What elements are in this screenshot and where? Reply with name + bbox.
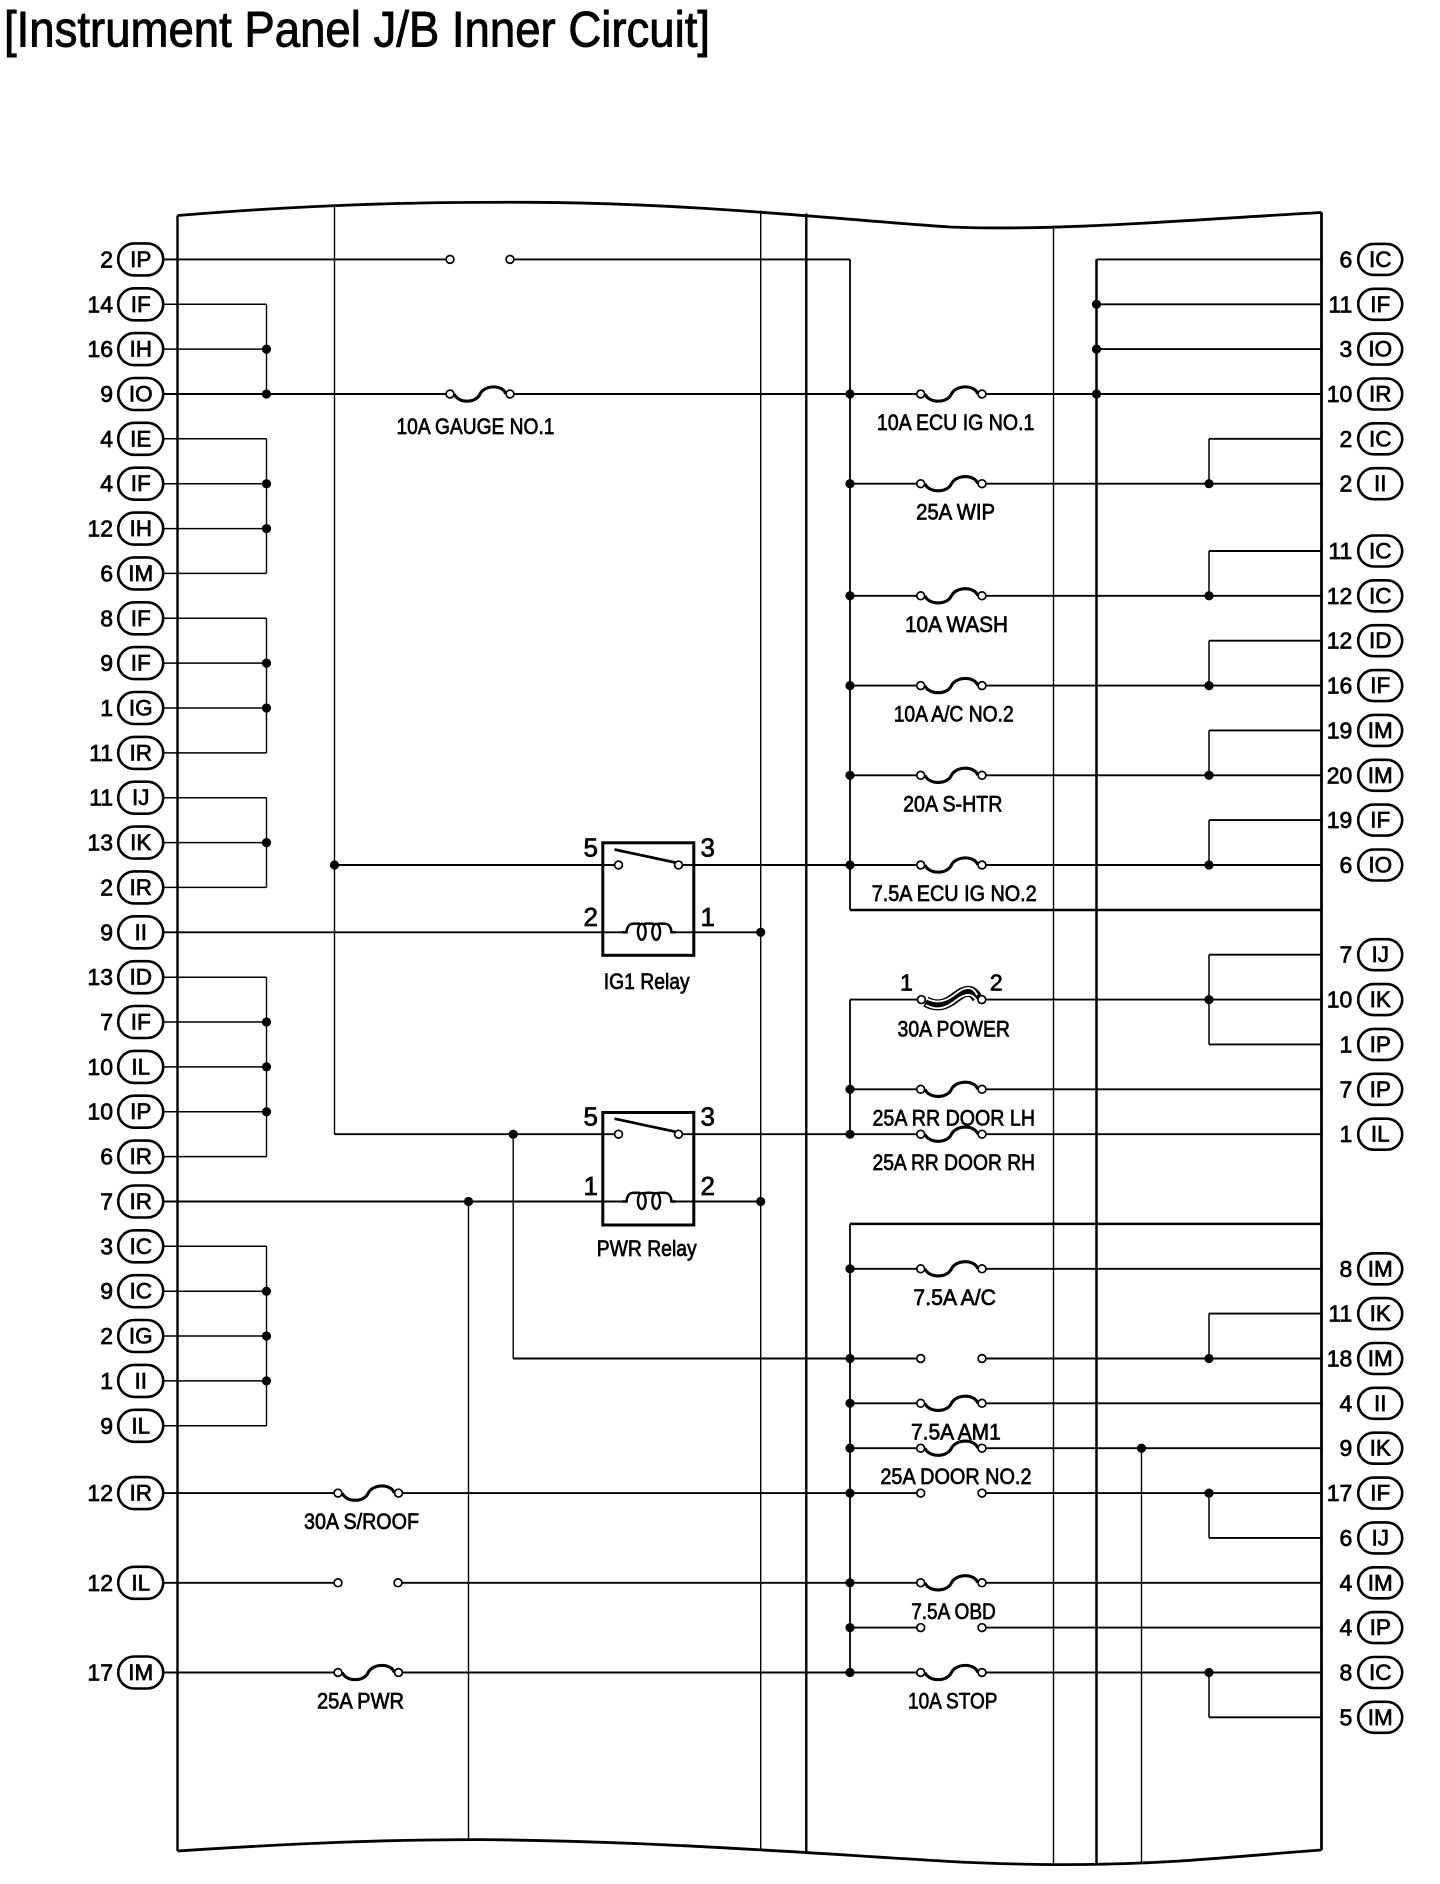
wire stub left pin row 24 [163, 1335, 266, 1337]
J/B left edge [176, 216, 178, 1852]
svg-text:30A S/ROOF: 30A S/ROOF [304, 1509, 419, 1534]
wire 7 IR row to PWR coil [163, 1201, 623, 1203]
junction dot x513/PWR feed [509, 1130, 518, 1139]
connector pin 1 IG (left) [100, 692, 163, 724]
connector pin 5 IM (right) [1340, 1702, 1403, 1733]
junction dot rail850 row 5 [845, 479, 854, 488]
wire 4 IP spare row [850, 1627, 1322, 1629]
svg-text:7: 7 [100, 1009, 113, 1035]
connector pin 10 IK (right) [1327, 984, 1402, 1015]
junction dot V5 row1 [1092, 300, 1101, 309]
svg-text:IF: IF [131, 606, 151, 631]
wire 12 IC / 10A WASH row [850, 595, 1322, 597]
svg-text:9: 9 [100, 1278, 113, 1304]
right stub vertical rows 27.5-28.5 [1208, 1493, 1210, 1538]
svg-text:IP: IP [1370, 1032, 1391, 1057]
connector pin 6 IO (right) [1340, 850, 1403, 881]
connector pin 19 IF (right) [1327, 805, 1402, 836]
svg-text:IK: IK [1370, 987, 1391, 1012]
svg-text:IG1 Relay: IG1 Relay [604, 969, 691, 994]
svg-text:7: 7 [100, 1189, 113, 1215]
junction dot rail850 row 3 [845, 389, 854, 398]
svg-text:IF: IF [1370, 1481, 1390, 1506]
wire 11 IF row [1097, 303, 1322, 305]
svg-text:5: 5 [584, 833, 598, 863]
wire 2 IP row [163, 258, 850, 260]
svg-text:12: 12 [1327, 583, 1353, 609]
svg-text:IF: IF [1370, 292, 1390, 317]
wire stub left pin row 13 [163, 842, 266, 844]
supply rail x850 POWER segment [849, 1000, 851, 1135]
svg-text:10A ECU IG NO.1: 10A ECU IG NO.1 [877, 410, 1035, 435]
svg-text:7.5A OBD: 7.5A OBD [911, 1599, 996, 1624]
svg-text:II: II [1374, 471, 1387, 496]
vertical bus V1 x334 [334, 205, 336, 1135]
svg-text:10A STOP: 10A STOP [908, 1689, 997, 1714]
junction dot rail850 row 29.5 [845, 1578, 854, 1587]
svg-text:10: 10 [87, 1099, 113, 1125]
wire 20 IM / 20A S-HTR row [850, 774, 1322, 776]
junction dot rail850 row 27.5 [845, 1489, 854, 1498]
junction dot (266.5,1291.2) [262, 1287, 271, 1296]
svg-text:2: 2 [1340, 471, 1353, 497]
fuse 7.5A OBD [911, 1576, 996, 1624]
svg-text:10: 10 [87, 1054, 113, 1080]
left group bus x266 rows 1-3 [266, 304, 268, 394]
svg-text:4: 4 [1340, 1570, 1353, 1596]
wire 9 IK / 25A DOOR NO.2 row [850, 1447, 1322, 1449]
svg-text:17: 17 [87, 1660, 113, 1686]
svg-text:IK: IK [1370, 1301, 1391, 1326]
svg-text:II: II [134, 920, 147, 945]
svg-text:8: 8 [1340, 1660, 1353, 1686]
connector pin 4 IF (left) [100, 468, 163, 500]
supply rail x850 upper segment [849, 259, 851, 910]
svg-text:6: 6 [1340, 1525, 1353, 1551]
svg-text:20: 20 [1327, 762, 1353, 788]
connector pin 10 IR (right) [1327, 379, 1402, 410]
wire stub left pin row 11 [163, 752, 266, 754]
wire stub left pin row 25 [163, 1380, 266, 1382]
svg-text:IC: IC [129, 1279, 152, 1304]
junction dot rail850 row 26.5 [845, 1444, 854, 1453]
junction dot V5 row2 [1092, 345, 1101, 354]
svg-text:2: 2 [100, 874, 113, 900]
fuse 30A S/ROOF [304, 1486, 419, 1534]
junction dot V5 row3 [1092, 389, 1101, 398]
junction dot (266.5,349.1) [262, 345, 271, 354]
junction dot (266.5,1066.9) [262, 1062, 271, 1071]
junction dot rail850 row 11.5 [845, 771, 854, 780]
connector pin 6 IR (left) [100, 1141, 163, 1173]
connector pin 2 IP (left) [100, 243, 163, 275]
svg-text:7: 7 [1340, 1076, 1353, 1102]
svg-text:ID: ID [1369, 628, 1392, 653]
title text [4, 2, 710, 58]
connector pin 6 IM (left) [100, 557, 163, 589]
junction dot rail850 row 22.5 [845, 1264, 854, 1273]
wire stub left pin row 16 [163, 976, 266, 978]
wire 10 IK / 30A POWER row [850, 999, 1322, 1001]
right stub vertical rows 4-5 [1208, 439, 1210, 484]
junction dot (266.5,394.0) [262, 389, 271, 398]
junction dot stub1209 row 11.5 [1204, 771, 1213, 780]
svg-text:13: 13 [87, 964, 113, 990]
junction dot rail850 row 30.5 [845, 1623, 854, 1632]
wire 11 IK stub row [1209, 1313, 1322, 1315]
connector pin 11 IJ (left) [89, 782, 163, 814]
svg-text:1: 1 [584, 1171, 598, 1201]
svg-text:IO: IO [129, 382, 153, 407]
wire 9 IO / 10 IR main row [163, 393, 1321, 395]
svg-text:IE: IE [130, 426, 151, 451]
svg-text:ID: ID [129, 965, 152, 990]
svg-text:IH: IH [129, 337, 152, 362]
fuse 7.5A ECU IG NO.2 [872, 858, 1037, 906]
junction dot (266.5,483.7) [262, 479, 271, 488]
svg-text:IG: IG [129, 1324, 153, 1349]
svg-text:IK: IK [130, 830, 151, 855]
wire 5 IM stub row [1209, 1716, 1322, 1718]
wire stub left pin row 18 [163, 1066, 266, 1068]
wire 12 IR / 17 IF row [163, 1492, 1321, 1494]
connector pin 3 IO (right) [1340, 334, 1403, 365]
svg-text:IG: IG [129, 696, 153, 721]
junction dot rail850 row 9.5 [845, 681, 854, 690]
left group bus x266 rows 22-26 [266, 1246, 268, 1426]
svg-text:25A WIP: 25A WIP [916, 500, 995, 525]
right stub vertical rows 8.5-9.5 [1208, 641, 1210, 686]
fuse 25A RR DOOR RH [873, 1127, 1036, 1175]
svg-text:5: 5 [584, 1102, 598, 1132]
svg-text:9: 9 [1340, 1435, 1353, 1461]
spare fuse slot 2 IP row [446, 256, 514, 264]
wire stub left pin row 8 [163, 617, 266, 619]
connector pin 16 IH (left) [87, 333, 163, 365]
svg-text:1: 1 [1340, 1031, 1353, 1057]
wire 12 ID stub row [1209, 640, 1322, 642]
svg-text:25A PWR: 25A PWR [317, 1689, 404, 1714]
left group bus x266 rows 16-20 [266, 977, 268, 1156]
wire stub left pin row 3 [163, 393, 266, 395]
junction dot stub1209 row 5 [1204, 479, 1213, 488]
svg-text:30A POWER: 30A POWER [898, 1017, 1011, 1042]
svg-text:IL: IL [1371, 1122, 1390, 1147]
fuse 25A DOOR NO.2 [880, 1441, 1031, 1489]
svg-text:2: 2 [584, 902, 598, 932]
svg-text:11: 11 [1328, 538, 1352, 564]
vertical bus V3 x806 [805, 214, 807, 1853]
connector pin 17 IF (right) [1327, 1478, 1402, 1509]
junction dot stub1209 row 27.5 [1204, 1489, 1213, 1498]
svg-text:10A A/C NO.2: 10A A/C NO.2 [894, 702, 1014, 727]
fuse 10A STOP [908, 1665, 997, 1713]
connector pin 9 IL (left) [100, 1410, 163, 1442]
svg-text:IM: IM [128, 1660, 153, 1685]
svg-text:7: 7 [1340, 942, 1353, 968]
connector pin 12 IL (left) [87, 1567, 163, 1599]
left group bus x266 rows 12-14 [266, 798, 268, 888]
svg-text:6: 6 [100, 560, 113, 586]
fuse 10A ECU IG NO.1 [877, 387, 1035, 435]
right stub vertical rows 12.5-13.5 [1208, 820, 1210, 865]
svg-text:2: 2 [990, 970, 1003, 996]
svg-text:3: 3 [1340, 336, 1353, 362]
svg-text:3: 3 [701, 833, 715, 863]
junction dot (266.5,1022.0) [262, 1017, 271, 1026]
svg-text:18: 18 [1327, 1346, 1353, 1372]
wire 2 II / 25A WIP row [850, 483, 1322, 485]
junction dot stub1209 row 24.5 [1204, 1354, 1213, 1363]
connector pin 11 IF (right) [1328, 289, 1402, 320]
wire 7 IP / 25A RR DOOR LH row [850, 1088, 1322, 1090]
wire stub left pin row 19 [163, 1111, 266, 1113]
wire PWR coil out to V2 [675, 1201, 761, 1203]
junction dot stub1209 row 13.5 [1204, 860, 1213, 869]
svg-text:9: 9 [100, 650, 113, 676]
svg-text:IP: IP [1370, 1615, 1391, 1640]
junction dot x1141/DOOR NO.2 [1137, 1444, 1146, 1453]
connector pin 17 IM (left) [87, 1657, 163, 1689]
vertical wire x468 from 7 IR row [468, 1202, 470, 1839]
connector pin 7 IP (right) [1340, 1074, 1403, 1105]
vertical wire x1141 from DOOR NO.2 row [1141, 1448, 1143, 1864]
svg-text:7.5A AM1: 7.5A AM1 [911, 1419, 1001, 1444]
wire 8 IM / 7.5A A/C row [850, 1268, 1322, 1270]
svg-text:13: 13 [87, 830, 113, 856]
right stub vertical rows 31.5-32.5 [1208, 1673, 1210, 1718]
svg-text:19: 19 [1327, 807, 1353, 833]
wire IG1 coil out to V2 [675, 931, 761, 933]
wire 3 IO row [1097, 348, 1322, 350]
right stub vertical rows 23.5-24.5 [1208, 1314, 1210, 1359]
wire 7 IJ stub row [1209, 954, 1322, 956]
vertical bus V2 x761 (relay coil return) [760, 211, 762, 1849]
svg-text:10A WASH: 10A WASH [905, 612, 1008, 637]
svg-text:25A RR DOOR RH: 25A RR DOOR RH [873, 1150, 1036, 1175]
connector pin 9 IC (left) [100, 1275, 163, 1307]
wire stub left pin row 17 [163, 1021, 266, 1023]
svg-text:IM: IM [1368, 1705, 1393, 1730]
svg-text:20A S-HTR: 20A S-HTR [903, 791, 1002, 816]
connector pin 11 IK (right) [1328, 1298, 1402, 1329]
connector pin 8 IM (right) [1340, 1253, 1403, 1284]
svg-text:1: 1 [100, 695, 113, 721]
connector pin 9 IO (left) [100, 378, 163, 410]
junction dot V2/IG1 coil [756, 928, 765, 937]
connector pin 11 IC (right) [1328, 536, 1402, 567]
connector pin 16 IF (right) [1327, 670, 1402, 701]
svg-text:IJ: IJ [1371, 942, 1389, 967]
fuse 25A WIP [916, 477, 995, 525]
svg-text:12: 12 [87, 1480, 113, 1506]
connector pin 10 IP (left) [87, 1096, 163, 1128]
svg-text:IM: IM [1368, 1256, 1393, 1281]
connector pin 13 ID (left) [87, 961, 163, 993]
svg-text:IR: IR [129, 1481, 152, 1506]
svg-text:IJ: IJ [132, 785, 150, 810]
connector pin 9 IF (left) [100, 647, 163, 679]
svg-text:IR: IR [1369, 382, 1392, 407]
junction dot V2/PWR coil [756, 1197, 765, 1206]
svg-text:II: II [134, 1368, 147, 1393]
fuse 10A GAUGE NO.1 [397, 387, 555, 439]
junction dot rail850 RR DOOR LH [845, 1085, 854, 1094]
connector pin 18 IM (right) [1327, 1343, 1402, 1374]
svg-text:II: II [1374, 1391, 1387, 1416]
wire stub left pin row 23 [163, 1290, 266, 1292]
svg-text:12: 12 [87, 516, 113, 542]
svg-text:IJ: IJ [1371, 1525, 1389, 1550]
connector pin 12 IR (left) [87, 1477, 163, 1509]
bus rail y1224 to right edge [850, 1223, 1322, 1226]
svg-text:3: 3 [100, 1233, 113, 1259]
fuse 20A S-HTR [903, 768, 1002, 816]
connector pin 20 IM (right) [1327, 760, 1402, 791]
vertical wire x513 PWR feed branch [512, 1134, 514, 1358]
junction dot x468/7 IR [464, 1197, 473, 1206]
wire stub left pin row 14 [163, 886, 266, 888]
wire 19 IF stub row [1209, 819, 1322, 821]
connector pin 3 IC (left) [100, 1230, 163, 1262]
svg-text:11: 11 [1328, 291, 1352, 317]
svg-text:3: 3 [701, 1102, 715, 1132]
wire 11 IC stub row [1209, 550, 1322, 552]
svg-text:9: 9 [100, 919, 113, 945]
svg-text:2: 2 [100, 1323, 113, 1349]
connector pin 1 IL (right) [1340, 1119, 1403, 1150]
svg-text:19: 19 [1327, 717, 1353, 743]
svg-text:25A DOOR NO.2: 25A DOOR NO.2 [880, 1464, 1031, 1489]
svg-text:10A GAUGE NO.1: 10A GAUGE NO.1 [397, 414, 555, 439]
svg-text:PWR Relay: PWR Relay [597, 1236, 698, 1261]
wire stub left pin row 26 [163, 1425, 266, 1427]
svg-text:IF: IF [1370, 673, 1390, 698]
J/B bottom wavy border [178, 1840, 1322, 1865]
connector pin 6 IJ (right) [1340, 1522, 1403, 1553]
connector pin 7 IJ (right) [1340, 939, 1403, 970]
connector pin 12 IH (left) [87, 513, 163, 545]
bus rail y910 to right edge [850, 909, 1322, 912]
connector pin 2 IG (left) [100, 1320, 163, 1352]
svg-text:17: 17 [1327, 1480, 1353, 1506]
connector pin 11 IR (left) [89, 737, 163, 769]
junction dot stub1209 row 16.5 [1204, 995, 1213, 1004]
junction dot rail850 row 24.5 [845, 1354, 854, 1363]
connector pin 12 IC (right) [1327, 580, 1402, 611]
svg-text:16: 16 [87, 336, 113, 362]
wire 19 IM stub row [1209, 729, 1322, 731]
svg-text:2: 2 [100, 246, 113, 272]
fuse 10A A/C NO.2 [894, 678, 1014, 726]
svg-text:10: 10 [1327, 987, 1353, 1013]
fuse 25A RR DOOR LH [873, 1082, 1036, 1130]
right stub vertical rows 10.5-11.5 [1208, 730, 1210, 775]
spare fuse slot 4 IP row [917, 1624, 986, 1632]
junction dot rail850 row 7.5 [845, 591, 854, 600]
svg-text:14: 14 [87, 291, 113, 317]
svg-text:IC: IC [1369, 247, 1392, 272]
wire 12 IL / 4 IM row [163, 1582, 1321, 1584]
right stub vertical rows 15.5-17.5 [1208, 955, 1210, 1045]
connector pin 4 II (right) [1340, 1388, 1403, 1419]
svg-text:IF: IF [1370, 808, 1390, 833]
connector pin 4 IP (right) [1340, 1612, 1403, 1643]
spare fuse slot 12 IL row [334, 1579, 402, 1587]
svg-text:12: 12 [87, 1570, 113, 1596]
connector pin 4 IM (right) [1340, 1567, 1403, 1598]
svg-text:25A RR DOOR LH: 25A RR DOOR LH [873, 1105, 1036, 1130]
relay U2 PWR Relay [584, 1102, 715, 1261]
svg-text:IF: IF [131, 292, 151, 317]
svg-text:2: 2 [701, 1171, 715, 1201]
junction dot (266.5,1111.7) [262, 1107, 271, 1116]
connector pin 12 ID (right) [1327, 625, 1402, 656]
wire stub left pin row 1 [163, 303, 266, 305]
junction dot (266.5,708.0) [262, 703, 271, 712]
connector pin 6 IC (right) [1340, 244, 1403, 275]
wire PWR relay feed / RR DOOR RH / 1 IL row [335, 1133, 1322, 1135]
wire stub left pin row 6 [163, 528, 266, 530]
svg-text:IP: IP [1370, 1077, 1391, 1102]
svg-text:1: 1 [100, 1368, 113, 1394]
svg-text:11: 11 [1328, 1301, 1352, 1327]
vertical bus V5 x1096 [1095, 259, 1098, 1864]
fuse 7.5A AM1 [911, 1396, 1001, 1444]
svg-text:IC: IC [129, 1234, 152, 1259]
vertical bus V4 x1053 [1053, 226, 1055, 1865]
junction dot (266.5,528.6) [262, 524, 271, 533]
connector pin 4 IE (left) [100, 423, 163, 455]
connector pin 2 IC (right) [1340, 423, 1403, 454]
wire 1 IP stub row [1209, 1043, 1322, 1045]
svg-text:6: 6 [1340, 246, 1353, 272]
svg-text:IC: IC [1369, 1660, 1392, 1685]
fusible link 30A POWER [898, 970, 1011, 1042]
wire 18 IM spare row [513, 1358, 1321, 1360]
connector pin 14 IF (left) [87, 288, 163, 320]
svg-text:IF: IF [131, 471, 151, 496]
connector pin 8 IC (right) [1340, 1657, 1403, 1688]
svg-text:16: 16 [1327, 673, 1353, 699]
left group bus x266 rows 4-7 [266, 439, 268, 574]
J/B top wavy border [178, 202, 1322, 228]
connector pin 9 II (left) [100, 916, 163, 948]
svg-text:IH: IH [129, 516, 152, 541]
left group bus x266 rows 8-11 [266, 618, 268, 753]
junction dot stub1209 row 7.5 [1204, 591, 1213, 600]
wire 6 IC row [1097, 258, 1322, 260]
svg-text:12: 12 [1327, 628, 1353, 654]
junction dot rail850 row 25.5 [845, 1399, 854, 1408]
wire stub left pin row 5 [163, 483, 266, 485]
spare fuse slot 18 IM row [917, 1355, 986, 1363]
svg-text:8: 8 [100, 605, 113, 631]
svg-text:IC: IC [1369, 426, 1392, 451]
svg-text:IO: IO [1368, 337, 1392, 362]
relay U1 IG1 Relay [584, 833, 715, 995]
svg-text:11: 11 [89, 785, 113, 811]
wire stub left pin row 9 [163, 662, 266, 664]
connector pin 7 IF (left) [100, 1006, 163, 1038]
svg-text:IC: IC [1369, 539, 1392, 564]
junction dot V1/IG1 feed [330, 860, 339, 869]
svg-text:11: 11 [89, 740, 113, 766]
wire 2 IC stub row [1209, 438, 1322, 440]
svg-text:IO: IO [1368, 853, 1392, 878]
svg-text:6: 6 [100, 1144, 113, 1170]
wire 16 IF / 10A A/C NO.2 row [850, 685, 1322, 687]
